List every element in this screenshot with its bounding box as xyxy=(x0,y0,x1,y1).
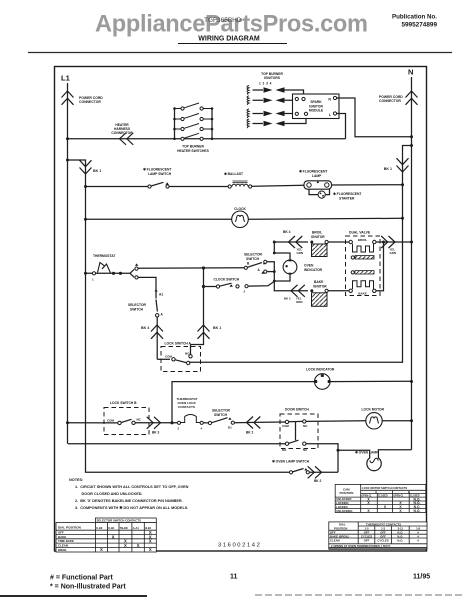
svg-text:CONNECTOR: CONNECTOR xyxy=(79,100,101,104)
oven indicator lamp xyxy=(283,259,323,274)
wire valve output xyxy=(376,242,412,291)
svg-text:TGF365BHD: TGF365BHD xyxy=(204,17,242,24)
ignitor 4 xyxy=(247,117,306,128)
wire main oven row xyxy=(138,267,244,270)
door switch xyxy=(280,408,318,452)
svg-text:4: 4 xyxy=(201,427,203,431)
svg-text:LAMP: LAMP xyxy=(312,174,322,178)
svg-text:CLOSED: CLOSED xyxy=(378,495,388,497)
svg-text:BAKE: BAKE xyxy=(358,292,367,296)
svg-text:MODULE: MODULE xyxy=(309,109,324,113)
svg-text:N: N xyxy=(328,97,331,101)
svg-text:A-A1: A-A1 xyxy=(133,526,140,530)
svg-text:LOCKING: LOCKING xyxy=(336,501,348,505)
svg-text:LOCK INDICATOR: LOCK INDICATOR xyxy=(306,368,335,372)
selector switch right xyxy=(244,253,267,274)
ignitor 3 xyxy=(247,109,293,118)
svg-text:X: X xyxy=(100,547,103,552)
ballast xyxy=(224,172,252,188)
bake ignitor xyxy=(310,280,328,306)
svg-text:BK 2: BK 2 xyxy=(246,431,253,435)
svg-text:N.O.: N.O. xyxy=(397,539,403,543)
svg-text:SWITCH: SWITCH xyxy=(214,413,228,417)
svg-text:POSITION: POSITION xyxy=(340,491,354,495)
svg-text:NO: NO xyxy=(303,424,308,428)
wire N bus xyxy=(411,77,413,450)
svg-text:11/95: 11/95 xyxy=(413,574,430,581)
svg-text:DUAL VALVE: DUAL VALVE xyxy=(349,231,371,235)
ignitor 2 xyxy=(247,96,293,105)
selector switch mid xyxy=(128,289,164,359)
oven lamp switch xyxy=(272,460,338,474)
wire selector A tap xyxy=(267,271,274,273)
wire L1 bus xyxy=(67,83,69,444)
svg-text:AppliancePartsPros.com: AppliancePartsPros.com xyxy=(95,12,368,38)
svg-text:BROIL: BROIL xyxy=(358,238,368,242)
svg-text:B: B xyxy=(247,262,250,266)
svg-text:BK 1: BK 1 xyxy=(213,326,221,330)
svg-text:1 2 3 4: 1 2 3 4 xyxy=(259,82,272,86)
svg-text:BROIL: BROIL xyxy=(58,548,67,552)
svg-text:# OPENS AT OVEN TEMPERATURES ±: # OPENS AT OVEN TEMPERATURES ± 550°F xyxy=(331,544,391,548)
wire fluorescent row xyxy=(86,186,230,188)
clock switch xyxy=(204,278,275,294)
wire module L to heater row xyxy=(337,114,346,139)
fluorescent starter xyxy=(309,189,361,200)
wire thermostat row xyxy=(86,272,131,274)
connector bake chevrons xyxy=(291,285,305,297)
connector broil left chevrons xyxy=(289,236,303,248)
dual valve xyxy=(346,231,381,296)
broil ignitor xyxy=(310,231,328,257)
wire lock indicator left xyxy=(172,382,315,423)
spark ignitor module U1 xyxy=(293,94,340,119)
svg-text:* = Non-Illustrated Part: * = Non-Illustrated Part xyxy=(50,584,126,591)
svg-text:GRN: GRN xyxy=(297,251,303,255)
connector clock switch branch chevrons xyxy=(198,325,210,339)
svg-text:WIRING DIAGRAM: WIRING DIAGRAM xyxy=(198,36,260,43)
diagram border frame xyxy=(55,67,427,552)
svg-text:IGNITORS: IGNITORS xyxy=(264,76,281,80)
node L1 heater branch xyxy=(66,159,69,162)
svg-text:# = Functional Part: # = Functional Part xyxy=(50,575,113,582)
svg-text:LOCK MOTOR SWITCH CONTACTS: LOCK MOTOR SWITCH CONTACTS xyxy=(362,486,407,490)
node module N junction xyxy=(410,135,413,138)
svg-text:B1: B1 xyxy=(228,426,232,430)
svg-text:CONNECTOR: CONNECTOR xyxy=(111,131,133,135)
heater harness connector xyxy=(120,133,134,145)
svg-text:11: 11 xyxy=(230,574,238,581)
svg-text:IGNITOR: IGNITOR xyxy=(313,284,327,288)
svg-text:BK 2: BK 2 xyxy=(284,297,291,301)
node BK1 branch junction xyxy=(410,144,413,147)
svg-text:A: A xyxy=(161,313,164,317)
selector switch bottom xyxy=(208,409,234,430)
svg-text:X: X xyxy=(124,543,127,548)
svg-text:CLOCK: CLOCK xyxy=(234,207,246,211)
svg-text:SELECTOR SWITCH CONTACTS: SELECTOR SWITCH CONTACTS xyxy=(97,519,142,523)
svg-text:SWITCH: SWITCH xyxy=(130,307,144,311)
svg-text:K-B1: K-B1 xyxy=(108,526,115,530)
node thermostat fork xyxy=(130,269,134,277)
thermostat oven lock contacts xyxy=(177,397,204,431)
svg-text:✱ BALLAST: ✱ BALLAST xyxy=(224,172,243,176)
svg-text:NC: NC xyxy=(137,418,142,422)
svg-text:LOCK SWITCH A: LOCK SWITCH A xyxy=(165,342,192,346)
lock motor xyxy=(362,408,385,429)
wire lamp to BK1 bus xyxy=(332,184,403,186)
svg-text:N: N xyxy=(408,68,413,77)
bottom scan line xyxy=(0,595,147,597)
connector BK3 chevrons xyxy=(147,417,161,429)
power cord connector L1 xyxy=(62,91,74,105)
thermostat xyxy=(92,254,122,282)
svg-text:X: X xyxy=(149,539,152,544)
lock switch B xyxy=(104,401,149,435)
svg-text:2: 2 xyxy=(178,427,180,431)
svg-text:LAMP SWITCH: LAMP SWITCH xyxy=(148,172,172,176)
svg-text:TB-BK: TB-BK xyxy=(120,526,128,530)
svg-text:LOCK SWITCH B: LOCK SWITCH B xyxy=(110,401,137,405)
svg-text:A: A xyxy=(258,268,261,272)
svg-text:COM: COM xyxy=(282,424,289,428)
top burner heater switches xyxy=(173,103,213,153)
wire broil tap xyxy=(274,242,290,260)
svg-text:STARTER: STARTER xyxy=(339,196,355,200)
svg-text:NOTES:: NOTES: xyxy=(69,478,83,482)
wire lock indicator right xyxy=(330,380,411,382)
svg-text:DOOR SWITCH: DOOR SWITCH xyxy=(285,408,309,412)
connector valve output chevrons xyxy=(381,236,395,248)
svg-text:N.O.: N.O. xyxy=(414,509,421,513)
svg-text:5995274899: 5995274899 xyxy=(401,22,437,29)
svg-text:✱ OVEN LAMP SWITCH: ✱ OVEN LAMP SWITCH xyxy=(272,460,310,464)
power cord connector N xyxy=(406,91,418,105)
svg-text:LOCK MOTOR: LOCK MOTOR xyxy=(362,408,385,412)
fluorescent lamp xyxy=(299,170,332,190)
wire BK1 left branch xyxy=(68,160,291,472)
connector BK4 mid xyxy=(151,325,163,339)
connector BK1 right xyxy=(397,158,409,172)
svg-text:DOOR CLOSED AND UNLOCKED.: DOOR CLOSED AND UNLOCKED. xyxy=(82,492,143,496)
wire BK1 right branch xyxy=(190,146,412,363)
svg-text:BK 2: BK 2 xyxy=(314,479,321,483)
svg-text:X: X xyxy=(112,534,115,539)
svg-text:COM: COM xyxy=(107,419,115,423)
svg-text:POSITION: POSITION xyxy=(334,526,347,530)
svg-text:BK 1: BK 1 xyxy=(93,169,101,173)
wire door switch NC to lamp branch xyxy=(306,444,338,473)
lock indicator xyxy=(306,368,335,390)
svg-text:DIAL POSITION: DIAL POSITION xyxy=(58,525,82,529)
svg-text:NO: NO xyxy=(185,351,190,355)
svg-text:X: X xyxy=(137,543,140,548)
clock motor xyxy=(232,207,249,228)
svg-text:GRN: GRN xyxy=(296,300,302,304)
svg-text:2. BK ’X’ DENOTES BAKELINE CO: 2. BK ’X’ DENOTES BAKELINE CONNECTOR P/N… xyxy=(75,499,183,503)
wire clock switch branch xyxy=(191,268,204,345)
wire clock row xyxy=(86,218,403,219)
svg-text:316002142: 316002142 xyxy=(218,543,261,549)
svg-text:BK 3: BK 3 xyxy=(152,431,159,435)
svg-text:Publication No.: Publication No. xyxy=(392,14,437,21)
svg-text:3. COMPONENTS WITH ✱ DO NOT A: 3. COMPONENTS WITH ✱ DO NOT APPEAR ON AL… xyxy=(75,505,188,510)
svg-text:CLEAN: CLEAN xyxy=(330,539,340,543)
wire module N to N bus xyxy=(337,98,412,137)
wire broil row xyxy=(274,241,349,243)
connector BK1 left xyxy=(80,160,92,174)
oven lamp xyxy=(337,449,412,471)
svg-text:UNLOCKED: UNLOCKED xyxy=(336,497,351,501)
header rule xyxy=(28,52,452,54)
svg-text:1: 1 xyxy=(92,278,94,282)
wire indicator bottom tap xyxy=(274,275,290,281)
svg-text:K-B0: K-B0 xyxy=(96,526,103,530)
ignitor 1 xyxy=(247,86,304,97)
svg-text:X: X xyxy=(149,547,152,552)
wire lower main row xyxy=(68,421,412,423)
svg-text:COM: COM xyxy=(165,354,173,358)
svg-text:1. CIRCUIT SHOWN WITH ALL CON: 1. CIRCUIT SHOWN WITH ALL CONTROLS SET T… xyxy=(75,485,189,489)
svg-text:CLOCK SWITCH: CLOCK SWITCH xyxy=(214,278,240,282)
svg-text:OFF: OFF xyxy=(364,539,370,543)
fluorescent lamp switch S1 xyxy=(143,168,172,189)
svg-text:SWITCH: SWITCH xyxy=(246,257,260,261)
wire selector B to bake bus xyxy=(267,262,284,291)
svg-text:THERMOSTAT: THERMOSTAT xyxy=(93,254,115,258)
wire bake row xyxy=(284,290,349,292)
notes xyxy=(69,478,189,510)
connector BK2 lamp chevrons xyxy=(308,466,322,478)
svg-text:LOCKED: LOCKED xyxy=(336,505,347,509)
svg-text:NO: NO xyxy=(282,448,287,452)
svg-text:BK 4: BK 4 xyxy=(141,326,149,330)
thermostat contacts table xyxy=(329,522,427,549)
svg-text:GRN: GRN xyxy=(390,251,396,255)
svg-text:2: 2 xyxy=(244,290,246,294)
svg-text:L1: L1 xyxy=(61,74,70,83)
wire selector mid branch xyxy=(138,277,156,298)
svg-text:OPEN-CL: OPEN-CL xyxy=(393,495,404,497)
svg-text:CONNECTOR: CONNECTOR xyxy=(379,99,401,103)
svg-text:CYCLES: CYCLES xyxy=(377,539,388,543)
svg-text:A1: A1 xyxy=(159,293,163,297)
svg-text:UNLOCKING: UNLOCKING xyxy=(336,509,352,513)
wire door switch NO bottom to L1 xyxy=(68,443,285,445)
lock motor switch contacts table xyxy=(335,484,426,512)
connector BK2 chevrons lower xyxy=(247,417,261,429)
svg-text:INDICATOR: INDICATOR xyxy=(304,268,323,272)
wire ballast to lamp xyxy=(252,185,304,186)
svg-text:CONTACTS: CONTACTS xyxy=(178,405,195,409)
selector switch contacts table xyxy=(56,518,156,552)
wire heater row L1 xyxy=(68,138,346,140)
svg-text:✱ OVEN LAMP: ✱ OVEN LAMP xyxy=(355,451,379,455)
svg-text:IGNITOR: IGNITOR xyxy=(311,235,325,239)
lock switch A xyxy=(157,342,200,372)
svg-text:HEATER SWITCHES: HEATER SWITCHES xyxy=(177,149,209,153)
svg-text:BK 4: BK 4 xyxy=(283,230,291,234)
svg-text:BK 1: BK 1 xyxy=(384,167,392,171)
